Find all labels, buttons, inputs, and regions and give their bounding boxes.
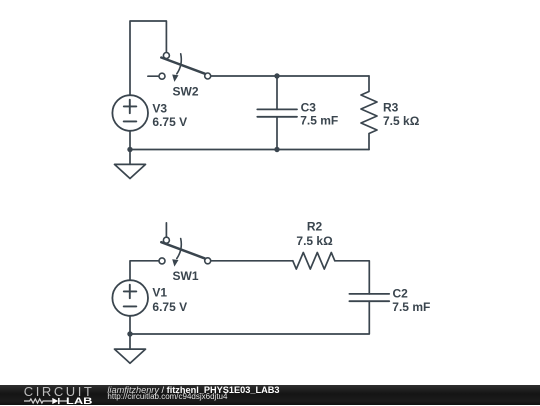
capacitor C2 xyxy=(349,294,389,301)
svg-text:6.75 V: 6.75 V xyxy=(152,115,187,129)
svg-text:C2: C2 xyxy=(393,287,409,301)
wire V1 top to SW1 left terminal xyxy=(130,261,159,280)
footer credit line xyxy=(107,385,279,395)
svg-text:7.5 kΩ: 7.5 kΩ xyxy=(296,234,333,248)
CircuitLab logo schematic squiggle xyxy=(24,397,68,405)
wire V1 bottom to ground xyxy=(129,316,131,349)
resistor R2 xyxy=(293,253,335,270)
svg-text:7.5 kΩ: 7.5 kΩ xyxy=(383,114,420,128)
wire V3 top to SW2 top terminal xyxy=(130,21,166,95)
node junction C3 bottom xyxy=(274,147,279,152)
node junction V1 ground xyxy=(127,331,132,336)
node junction V3 ground xyxy=(127,147,132,152)
voltage source V3 xyxy=(112,95,148,131)
resistor R3 xyxy=(361,76,377,150)
CircuitLab logo LAB xyxy=(66,396,92,406)
ground (top circuit) xyxy=(115,164,146,178)
svg-text:V3: V3 xyxy=(152,101,167,115)
svg-text:7.5 mF: 7.5 mF xyxy=(300,114,338,128)
svg-text:R3: R3 xyxy=(383,100,399,114)
wire SW2 right terminal to R3 top xyxy=(211,75,369,77)
svg-text:SW2: SW2 xyxy=(173,85,199,99)
svg-text:R2: R2 xyxy=(307,220,323,234)
wire C3 top lead xyxy=(276,76,278,109)
svg-text:V1: V1 xyxy=(152,286,167,300)
footer url line xyxy=(107,392,227,401)
switch SW1 xyxy=(159,223,211,267)
wire bottom rail top circuit xyxy=(130,149,369,151)
svg-text:7.5 mF: 7.5 mF xyxy=(392,300,430,314)
wire SW1 right terminal to R2 xyxy=(211,260,293,262)
wire R2 right to C2 top xyxy=(335,261,370,294)
CircuitLab logo wordmark xyxy=(24,384,95,399)
footer bar xyxy=(0,385,540,405)
switch SW2 xyxy=(148,53,211,82)
wire C3 bottom lead xyxy=(276,117,278,150)
svg-text:6.75 V: 6.75 V xyxy=(152,300,187,314)
wire V3 bottom to ground xyxy=(129,131,131,164)
node junction C3 top xyxy=(274,73,279,78)
voltage source V1 xyxy=(112,280,148,316)
ground (bottom circuit) xyxy=(115,349,146,363)
svg-text:SW1: SW1 xyxy=(173,269,199,283)
wire C2 bottom to bottom rail xyxy=(130,301,369,334)
svg-text:C3: C3 xyxy=(301,100,317,114)
capacitor C3 xyxy=(257,109,297,116)
